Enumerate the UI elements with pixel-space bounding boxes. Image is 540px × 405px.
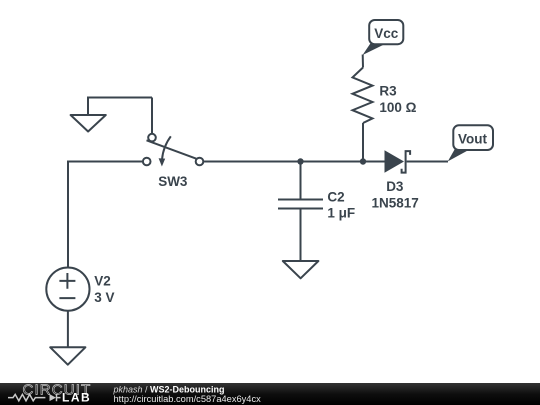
wire V2 to ground — [67, 311, 69, 348]
node junction at C2 — [297, 158, 303, 164]
resistor R3 — [353, 68, 417, 124]
node junction at R3 — [360, 158, 366, 164]
wire switch throw vertical — [151, 98, 153, 134]
svg-text:pkhash / WS2-Debouncing: pkhash / WS2-Debouncing — [113, 384, 225, 394]
diode D3 — [372, 150, 419, 210]
ground (below V2) — [50, 347, 85, 364]
wire switch pole to left rail — [68, 161, 143, 163]
wire top horizontal — [88, 97, 152, 99]
wire node to C2 top plate — [300, 162, 302, 200]
capacitor C2 — [278, 190, 355, 221]
svg-text:1N5817: 1N5817 — [372, 196, 419, 211]
svg-text:R3: R3 — [379, 84, 397, 99]
svg-text:D3: D3 — [386, 179, 404, 194]
svg-text:3 V: 3 V — [94, 290, 114, 305]
svg-text:100 Ω: 100 Ω — [379, 100, 416, 115]
svg-text:Vcc: Vcc — [374, 26, 399, 41]
svg-text:C2: C2 — [327, 190, 344, 205]
wire left rail down to V2 — [67, 161, 69, 268]
voltage source V2 — [46, 268, 114, 311]
wire ground stub top-left — [87, 97, 89, 116]
ground (below C2) — [283, 261, 319, 278]
wire main horizontal — [203, 161, 384, 163]
wire C2 bottom plate to ground — [300, 209, 302, 261]
ground (top left) — [71, 115, 106, 132]
switch SW3 — [143, 134, 203, 189]
wire diode to Vout — [407, 161, 448, 163]
net label Vout — [448, 125, 493, 161]
net label Vcc — [363, 20, 404, 55]
svg-text:SW3: SW3 — [158, 174, 188, 189]
svg-text:V2: V2 — [94, 274, 111, 289]
svg-text:1 μF: 1 μF — [327, 205, 355, 220]
wire Vcc tail to resistor — [362, 55, 364, 68]
svg-text:Vout: Vout — [458, 132, 487, 147]
wire resistor to node — [362, 123, 364, 162]
svg-text:LAB: LAB — [62, 390, 91, 404]
svg-text:http://circuitlab.com/c587a4ex: http://circuitlab.com/c587a4ex6y4cx — [114, 394, 262, 404]
